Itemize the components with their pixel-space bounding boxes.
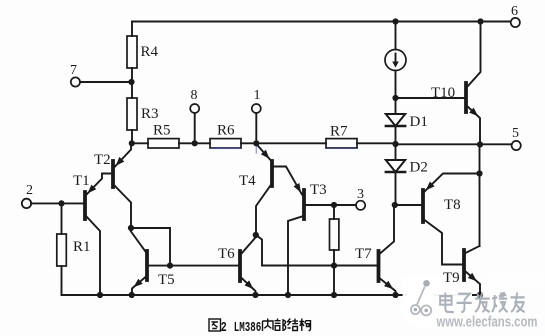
svg-text:T8: T8 <box>444 197 461 213</box>
node junction T5 base tie <box>167 263 173 269</box>
wire T1 base <box>31 202 84 204</box>
resistor R7 <box>326 139 357 148</box>
svg-text:R7: R7 <box>330 124 348 140</box>
transistor T5 <box>131 232 170 296</box>
node junction pin1/T4 emitter <box>253 140 259 146</box>
transistor T9 <box>464 246 480 295</box>
wire R8 top lead <box>333 205 335 219</box>
wire top supply rail <box>132 21 511 23</box>
node junction T4/T6 collectors <box>253 232 259 238</box>
node junction T3 collector/rail <box>285 292 291 298</box>
wire collector node to base bus elbow <box>256 235 377 266</box>
wire R6 to R7 <box>241 142 326 144</box>
svg-text:6: 6 <box>511 4 518 19</box>
node junction T8 emitter / T9 collector line <box>476 170 482 176</box>
svg-text:R3: R3 <box>141 106 159 122</box>
hanzi 子 <box>457 294 472 312</box>
node junction D2/T7 collector/T8 base <box>392 202 398 208</box>
resistor R1 <box>57 234 67 266</box>
transistor T2 <box>113 143 131 228</box>
node junction R8/rail <box>331 292 337 298</box>
wire T9 collector rise <box>479 145 481 247</box>
svg-text:2: 2 <box>26 183 33 198</box>
resistor R3 <box>127 98 137 130</box>
node junction T3 base / R8 <box>331 202 337 208</box>
hanzi 结 <box>288 319 299 331</box>
node junction pin7/R4/R3 <box>128 79 134 85</box>
svg-text:T2: T2 <box>94 152 111 168</box>
svg-text:T5: T5 <box>158 272 175 288</box>
resistor R4 <box>127 36 137 68</box>
svg-text:www.elecfans.com: www.elecfans.com <box>436 314 538 331</box>
node junction T5 emitter/rail <box>129 292 135 298</box>
caption: 图2 LM386内部结构 <box>209 319 311 336</box>
transistor T7 <box>379 251 396 295</box>
svg-text:1: 1 <box>254 88 261 103</box>
svg-text:D2: D2 <box>410 160 428 176</box>
node junction T10 emitter / pin5 rail <box>477 141 483 147</box>
svg-text:T10: T10 <box>431 85 455 101</box>
svg-text:5: 5 <box>512 126 519 141</box>
svg-text:R5: R5 <box>153 123 171 139</box>
hanzi 烧 <box>492 293 508 313</box>
transistor T3 <box>288 190 356 295</box>
jpeg blue artifact below pin1 node <box>255 147 257 154</box>
wire pin 8 lead <box>194 113 196 143</box>
current source I1 <box>385 50 406 71</box>
watermark logo <box>401 277 440 329</box>
jpeg blue artifact under R6 <box>211 147 240 149</box>
hanzi 构 <box>299 319 310 332</box>
svg-text:2: 2 <box>221 321 227 336</box>
node junction pin2/R1/T1 base <box>58 200 64 206</box>
node junction D1/D2/R7/pin5 rail <box>392 141 398 147</box>
watermark text 电子发烧友 <box>440 293 525 313</box>
wire current source top lead <box>395 22 397 50</box>
pin 3 terminal circle <box>356 201 365 210</box>
transistor T1 <box>85 174 112 296</box>
svg-text:T4: T4 <box>239 173 256 189</box>
hanzi 友 <box>511 293 525 313</box>
hanzi 发 <box>475 293 490 313</box>
wire R5 to R6 <box>179 142 210 144</box>
node junction T9 emitter/rail <box>477 292 483 298</box>
wire bottom ground rail <box>62 294 481 296</box>
wire output rail to pin 5 <box>396 143 512 145</box>
wire R7 to diode node <box>357 142 396 144</box>
resistor R6 <box>210 139 241 148</box>
wire R4 top lead <box>131 22 133 37</box>
svg-text:R4: R4 <box>141 44 159 60</box>
wire T8 base <box>395 204 422 206</box>
pin 8 terminal circle <box>190 104 199 113</box>
diode D2 <box>386 160 405 172</box>
wire R1 top lead <box>61 203 63 234</box>
transistor T8 <box>423 174 480 265</box>
node junction R3/R5/T2 emitter <box>129 140 135 146</box>
svg-text:T7: T7 <box>355 246 372 262</box>
node junction T6 emitter/rail <box>252 292 258 298</box>
svg-text:R1: R1 <box>73 239 91 255</box>
jpeg blue artifact under R7 <box>327 147 356 149</box>
wire current source bottom lead <box>395 71 397 115</box>
hanzi 电 <box>440 293 454 313</box>
wire R1 bottom lead <box>61 266 63 295</box>
node junction top rail / T10 collector <box>477 18 483 24</box>
wire D1 cathode to mid node <box>395 126 397 160</box>
transistor T10 <box>466 22 481 145</box>
node junction source/D1/T10 base <box>392 95 398 101</box>
hanzi 图 <box>209 319 221 331</box>
pin 2 terminal circle <box>22 199 31 208</box>
wire pin7 lead <box>80 81 132 83</box>
svg-text:T6: T6 <box>218 246 235 262</box>
svg-text:R6: R6 <box>217 123 235 139</box>
node junction T2 collector / T5 <box>128 225 134 231</box>
hanzi 内 <box>263 319 274 332</box>
pin 7 terminal circle <box>71 77 80 86</box>
transistor T4 <box>256 144 302 235</box>
svg-text:T1: T1 <box>73 173 90 189</box>
svg-text:7: 7 <box>70 63 77 78</box>
wire D2 cathode to T8 base node <box>395 172 397 205</box>
diode D1 <box>386 114 405 126</box>
svg-text:T3: T3 <box>310 182 327 198</box>
wire T10 base <box>396 97 465 99</box>
wire R4 to node7 <box>131 68 133 98</box>
hanzi 部 <box>275 319 286 332</box>
pin 5 terminal circle <box>512 141 521 150</box>
node junction R8 / base bus <box>331 263 337 269</box>
resistor R8 (unlabeled) <box>330 219 339 250</box>
wire pin 1 lead <box>255 113 257 143</box>
pin 1 terminal circle <box>252 104 261 113</box>
pin 6 terminal circle <box>511 18 520 27</box>
svg-text:8: 8 <box>191 88 198 103</box>
watermark white ghost backdrop <box>403 273 543 314</box>
wire T5 collector-base tie <box>131 228 170 266</box>
wire R8 bottom lead <box>333 250 335 295</box>
wire T6 base from mirror node <box>170 265 239 267</box>
transistor T6 <box>240 238 256 296</box>
node junction pin8 <box>192 140 198 146</box>
wire mid rail R3 to R5 <box>132 142 148 144</box>
node junction T7 emitter/rail <box>392 292 398 298</box>
wire R3 bottom lead <box>131 130 133 143</box>
node junction T1 collector/rail <box>97 292 103 298</box>
svg-text:T9: T9 <box>443 270 460 286</box>
svg-text:LM386: LM386 <box>234 321 261 336</box>
svg-text:D1: D1 <box>410 114 428 130</box>
resistor R5 <box>148 139 179 148</box>
svg-text:3: 3 <box>357 187 364 202</box>
node junction top rail / current source <box>392 18 398 24</box>
wire T7 collector rise <box>380 205 394 254</box>
